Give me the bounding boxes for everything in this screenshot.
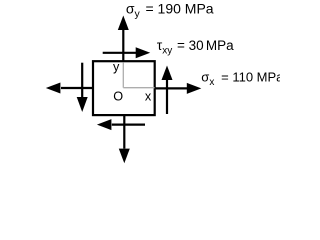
svg-text:τxy = 30 MPa: τxy = 30 MPa <box>157 38 234 57</box>
arrow tau bottom face (left) <box>97 119 145 130</box>
x axis (gray) <box>123 87 154 89</box>
svg-text:x: x <box>145 89 152 103</box>
svg-text:σx = 110 MPa: σx = 110 MPa <box>201 69 280 88</box>
arrow sigma_x left (left face) <box>46 83 93 94</box>
arrow sigma_y down (bottom face) <box>119 116 130 163</box>
arrow sigma_y up (top face) <box>118 16 129 62</box>
y axis (gray) <box>122 62 124 87</box>
arrow sigma_x right (right face) <box>155 83 202 94</box>
svg-text:σy = 190 MPa: σy = 190 MPa <box>126 0 214 20</box>
arrow tau right face (up) <box>162 66 173 115</box>
svg-text:O: O <box>113 90 123 104</box>
stress element square <box>93 61 155 115</box>
arrow tau left face (down) <box>77 63 88 112</box>
svg-text:y: y <box>113 60 120 74</box>
arrow tau top face (right) <box>103 47 151 58</box>
